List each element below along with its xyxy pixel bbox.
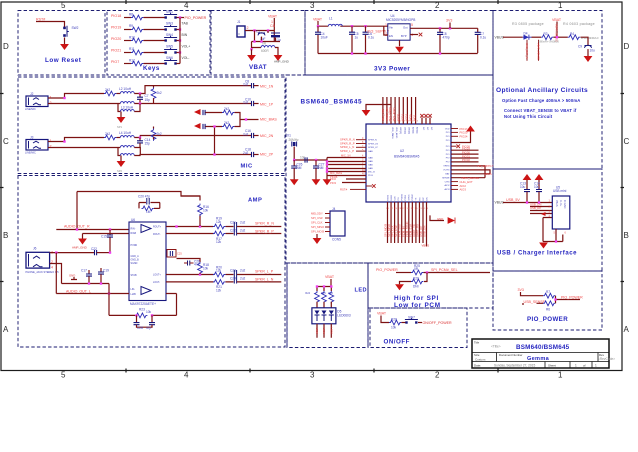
resistor R17 (151, 127, 162, 141)
inductor L1 (328, 17, 342, 27)
svg-text:MISO: MISO (391, 195, 393, 201)
junction (326, 160, 328, 172)
wire ground (543, 218, 563, 242)
crystal X1 (287, 134, 299, 147)
pin PIO20 (451, 131, 468, 135)
wire (134, 136, 251, 138)
junction (351, 52, 353, 54)
svg-text:PIO_POWER: PIO_POWER (561, 296, 583, 300)
power arrow (247, 55, 256, 61)
svg-text:PIO: PIO (446, 132, 450, 134)
svg-text:GND: GND (437, 217, 443, 221)
capacitor C15 (101, 230, 113, 253)
svg-text:SPI_MISO: SPI_MISO (311, 225, 325, 229)
wire (342, 179, 366, 183)
junction (63, 97, 65, 99)
wire (134, 86, 251, 94)
svg-text:B: B (624, 231, 629, 240)
wire (48, 147, 120, 149)
svg-text:Optional Ancillary Circuits: Optional Ancillary Circuits (496, 87, 588, 94)
wire (424, 273, 427, 282)
wire (76, 192, 78, 230)
no-connect (366, 184, 376, 188)
svg-text:10u: 10u (534, 185, 540, 189)
svg-text:VBAT: VBAT (325, 275, 335, 279)
svg-text:DNI: DNI (413, 285, 419, 289)
svg-text:AIO[1]: AIO[1] (416, 127, 419, 134)
svg-text:D: D (624, 42, 630, 51)
wire data rows (530, 207, 552, 218)
resistor R10 (129, 35, 143, 42)
junction (135, 314, 137, 316)
svg-text:VBAT: VBAT (268, 14, 278, 18)
svg-text:SPKR_L_P: SPKR_L_P (255, 270, 274, 274)
svg-text:3: 3 (310, 1, 315, 10)
resistor R19 (213, 217, 225, 229)
svg-text:MOSI: MOSI (387, 195, 389, 201)
junction (554, 298, 556, 300)
switch SW4 (164, 33, 177, 42)
svg-text:10u: 10u (590, 49, 596, 53)
wire (83, 234, 130, 239)
wire (451, 170, 490, 174)
wire (556, 296, 581, 304)
pin names top (391, 127, 432, 139)
wire (56, 293, 129, 295)
svg-text:LOUT+: LOUT+ (153, 274, 161, 277)
wire (318, 21, 388, 26)
power arrow (535, 174, 544, 190)
wire (50, 264, 62, 284)
node RST# (340, 187, 366, 191)
svg-text:High for SPI: High for SPI (394, 295, 439, 302)
svg-text:GAB: GAB (368, 160, 373, 163)
svg-text:VOL-: VOL- (182, 56, 190, 60)
svg-text:PCMO: PCMO (402, 194, 404, 201)
svg-text:C24: C24 (230, 277, 236, 281)
svg-text:LINE/MIC: LINE/MIC (25, 152, 36, 155)
svg-text:SW1: SW1 (166, 10, 173, 14)
svg-text:C21: C21 (230, 221, 236, 225)
svg-text:SPKR_R_N: SPKR_R_N (255, 222, 274, 226)
wire (235, 113, 241, 127)
svg-text:LIAB: LIAB (131, 293, 137, 296)
svg-text:LIN-: LIN- (131, 288, 136, 291)
wire PIO30 (451, 150, 479, 154)
junction (179, 39, 181, 41)
svg-text:Document Number: Document Number (499, 353, 523, 357)
svg-text:CS: CS (398, 197, 400, 201)
power arrow (290, 179, 299, 185)
junction (253, 40, 255, 42)
svg-text:VBUS: VBUS (495, 200, 505, 204)
capacitor C7 (475, 28, 487, 53)
junction (139, 92, 141, 94)
svg-text:<Title>: <Title> (491, 345, 501, 349)
node MIC labels (330, 154, 351, 179)
junction (151, 314, 153, 316)
junction (439, 27, 441, 29)
svg-text:RX: RX (419, 197, 421, 201)
node VBAT (325, 275, 335, 287)
svg-text:X1: X1 (287, 134, 291, 138)
svg-text:Connect VBAT_SENSE to VBAT if: Connect VBAT_SENSE to VBAT if (504, 108, 577, 113)
svg-text:MIC5205YM5/NOPB: MIC5205YM5/NOPB (386, 18, 415, 22)
svg-text:PIO_POWER: PIO_POWER (185, 16, 207, 20)
no-connect pins (420, 114, 432, 124)
svg-text:NC: NC (426, 127, 428, 131)
wire (177, 17, 185, 19)
svg-text:2k2: 2k2 (157, 132, 162, 136)
svg-text:DN: DN (426, 197, 428, 201)
resistor R28 (389, 317, 401, 329)
svg-text:LED[0]: LED[0] (399, 127, 401, 134)
svg-text:MIC_B: MIC_B (368, 171, 375, 173)
power arrow (117, 156, 126, 174)
ground arrow (194, 123, 201, 129)
resistor R3 (539, 32, 560, 44)
wire (64, 38, 66, 45)
svg-text:AMP_GND: AMP_GND (274, 60, 290, 64)
power arrow (395, 284, 404, 290)
svg-text:10k: 10k (146, 310, 152, 314)
svg-text:Sunday, September 27, 2015: Sunday, September 27, 2015 (494, 364, 535, 368)
block outline PIO_POWER (493, 271, 602, 330)
wire out rows (166, 227, 214, 282)
svg-text:J4: J4 (332, 207, 336, 211)
resistor R14 (151, 86, 162, 104)
svg-text:4: 4 (184, 371, 189, 380)
junction (267, 29, 269, 31)
svg-text:AIO3: AIO3 (460, 188, 467, 192)
junction (199, 225, 201, 227)
svg-text:R23: R23 (139, 307, 145, 311)
wire (144, 40, 165, 42)
junction (139, 102, 141, 104)
svg-text:PIO20: PIO20 (111, 37, 121, 41)
ground arrow small (541, 212, 546, 216)
svg-text:VBAT: VBAT (313, 17, 323, 21)
wire VBUS (451, 172, 492, 176)
resistor R7 (543, 290, 555, 298)
svg-text:PIO: PIO (446, 140, 450, 142)
svg-text:USB mini: USB mini (553, 189, 567, 193)
wire (214, 127, 216, 155)
wire (134, 103, 251, 105)
svg-text:PIO: PIO (446, 150, 450, 152)
svg-text:C19: C19 (103, 269, 109, 273)
svg-text:PVDD: PVDD (131, 244, 138, 247)
svg-text:PIO18: PIO18 (111, 14, 121, 18)
title block (472, 339, 615, 368)
svg-text:10u: 10u (520, 185, 526, 189)
svg-text:2: 2 (435, 1, 440, 10)
block outline MIC (18, 77, 285, 174)
svg-text:680mR+-5%0805: 680mR+-5%0805 (539, 39, 560, 43)
svg-text:2u2: 2u2 (240, 269, 246, 273)
wire (50, 252, 94, 254)
svg-text:3V3 Power: 3V3 Power (374, 65, 410, 72)
svg-text:BSM640/BSM645: BSM640/BSM645 (516, 344, 570, 351)
svg-text:AIO3: AIO3 (445, 188, 451, 191)
capacitor C6 (363, 26, 375, 53)
svg-text:SGND: SGND (131, 262, 138, 265)
svg-text:R9: R9 (129, 24, 133, 28)
svg-text:TAB: TAB (182, 22, 189, 26)
svg-text:VDD_ADIO: VDD_ADIO (395, 127, 398, 138)
ground arrow (194, 109, 201, 115)
svg-text:SPKR_N: SPKR_N (368, 140, 377, 142)
junction (317, 25, 319, 27)
pin AIO3 (451, 188, 466, 192)
svg-text:C20 47p: C20 47p (138, 195, 150, 199)
connector J1 (237, 20, 245, 37)
wire (402, 322, 407, 324)
svg-text:LED0603: LED0603 (337, 313, 351, 317)
svg-text:PCMI: PCMI (405, 195, 407, 201)
svg-text:R6: R6 (546, 307, 550, 311)
svg-text:NM: NM (319, 166, 324, 170)
svg-text:Title: Title (474, 341, 480, 345)
junction (556, 36, 558, 38)
svg-text:Low Reset: Low Reset (45, 57, 82, 64)
svg-text:C8: C8 (270, 24, 275, 28)
resistor R21 (213, 280, 225, 293)
svg-text:VBAT: VBAT (377, 312, 387, 316)
svg-text:C23: C23 (230, 269, 236, 273)
svg-text:LED[2]: LED[2] (407, 127, 409, 134)
svg-text:MAX97220AETE+: MAX97220AETE+ (130, 302, 156, 306)
wire feedback top (77, 192, 200, 197)
svg-text:R26: R26 (328, 292, 333, 295)
svg-text:AUDIO_OUT_R: AUDIO_OUT_R (64, 225, 90, 229)
svg-text:BAT: BAT (445, 173, 450, 176)
resistor R11 (129, 47, 143, 55)
switch SW2 (63, 26, 78, 37)
wire PIO31 (451, 154, 479, 158)
svg-text:2u2: 2u2 (243, 101, 249, 105)
connector J3 (25, 136, 52, 155)
svg-text:2k2: 2k2 (157, 91, 162, 95)
svg-text:MIC_1N: MIC_1N (260, 84, 274, 88)
resistor R18b (198, 262, 209, 274)
wire (177, 29, 181, 31)
pin names bottom (387, 194, 428, 201)
svg-text:SW2: SW2 (72, 26, 79, 30)
svg-text:VBAT_SENSE: VBAT_SENSE (536, 43, 540, 60)
capacitor C7 (137, 94, 150, 104)
svg-text:LED[1]: LED[1] (403, 127, 405, 134)
wire (177, 52, 181, 54)
svg-text:AIO2: AIO2 (445, 184, 451, 187)
svg-text:MIC_1N: MIC_1N (341, 154, 351, 158)
wire (554, 36, 568, 38)
resistor R6 (543, 301, 555, 311)
svg-text:PIO: PIO (446, 154, 450, 156)
node SPKR_R_P (340, 141, 366, 145)
ground marker (69, 273, 77, 279)
node VBAT (377, 312, 389, 323)
junction (55, 251, 57, 253)
power arrow (312, 179, 321, 185)
svg-text:Sheet: Sheet (548, 364, 556, 368)
svg-text:CHG_EXT_A: CHG_EXT_A (525, 43, 529, 59)
block outline Optional Ancillary Circuits (493, 11, 602, 170)
svg-text:BYP: BYP (401, 34, 407, 38)
svg-text:SW4: SW4 (166, 33, 173, 37)
capacitor C19 (98, 268, 109, 284)
junction (449, 27, 451, 29)
capacitor C25 network (167, 250, 182, 258)
svg-text:PIO7: PIO7 (111, 60, 119, 64)
svg-text:4: 4 (51, 266, 53, 270)
block outline BSM640_BSM645 (286, 75, 493, 263)
svg-text:29 27 25 23 21 19 17 15 13 11: 29 27 25 23 21 19 17 15 13 11 9 (386, 208, 429, 210)
wire PIO29 (451, 147, 479, 151)
wire (134, 104, 140, 112)
junction (293, 159, 295, 161)
block outline USB Charger (493, 169, 602, 271)
capacitor C13 (520, 182, 530, 203)
svg-text:J3: J3 (30, 136, 34, 140)
svg-text:VREG: VREG (443, 166, 449, 168)
power arrow (117, 112, 126, 130)
junction (253, 29, 255, 31)
svg-text:15p: 15p (145, 98, 151, 102)
junction (88, 282, 90, 284)
capacitor C16 (243, 129, 259, 138)
resistor R16 (222, 107, 234, 115)
svg-text:PIO_POWER: PIO_POWER (527, 316, 568, 323)
svg-text:PIO: PIO (446, 136, 450, 138)
junction (100, 282, 102, 284)
wire bottom loop (109, 294, 177, 316)
wire (55, 253, 57, 294)
svg-text:D: D (3, 42, 9, 51)
block outline VBAT (211, 11, 305, 76)
svg-text:0R: 0R (414, 267, 419, 271)
wire (108, 284, 110, 316)
wire H5_SUPPLY (451, 164, 494, 178)
wire (503, 36, 523, 38)
svg-text:3V3: 3V3 (446, 19, 452, 23)
svg-text:MIC_BIAS: MIC_BIAS (260, 118, 277, 122)
svg-text:R26: R26 (413, 277, 419, 281)
junction (364, 52, 366, 54)
svg-text:VDD_PADS: VDD_PADS (391, 127, 394, 139)
wire (134, 154, 140, 156)
svg-text:<RevCode>: <RevCode> (598, 357, 615, 361)
pin PIO21 (451, 135, 468, 139)
IC bottom pins (384, 194, 456, 248)
svg-text:SP1: SP1 (117, 125, 122, 129)
wire (400, 282, 412, 285)
svg-text:Vin: Vin (389, 26, 393, 30)
capacitor C20 (138, 195, 160, 205)
svg-text:LED1: LED1 (322, 328, 326, 335)
pin names right (442, 128, 450, 191)
node SPKR_R_N (340, 138, 366, 142)
block outline 3V3 Power (305, 11, 493, 76)
wire (273, 18, 275, 42)
wire (117, 93, 121, 95)
wire (144, 63, 165, 65)
junction (179, 28, 181, 30)
svg-text:SW6: SW6 (166, 56, 173, 60)
svg-text:31 33 35 37 39 41 43: 31 33 35 37 39 41 43 (389, 121, 419, 123)
junction (175, 225, 177, 227)
node SPKR_L_P (340, 149, 366, 153)
svg-text:VBUS: VBUS (555, 200, 558, 207)
junction (108, 292, 110, 294)
svg-text:C22: C22 (230, 229, 236, 233)
svg-text:SPKR_L_P: SPKR_L_P (340, 149, 354, 153)
svg-text:R24: R24 (305, 292, 310, 295)
switch SW5 (164, 44, 177, 53)
capacitor C22 (91, 247, 110, 255)
svg-text:VBUS: VBUS (484, 172, 492, 176)
svg-text:R8: R8 (129, 12, 133, 16)
LED array D5 (312, 308, 351, 324)
svg-text:MIC: MIC (241, 164, 253, 170)
wire (275, 48, 278, 56)
resistor R18 (222, 121, 234, 129)
svg-text:Custom: Custom (475, 358, 486, 362)
switch SW6 (164, 56, 177, 65)
svg-text:SPI_CLK: SPI_CLK (311, 221, 323, 225)
svg-text:C: C (624, 137, 630, 146)
svg-text:1: 1 (558, 1, 563, 10)
wire GND (430, 215, 455, 223)
junction (199, 273, 201, 275)
block outline Low Reset (18, 11, 105, 76)
resistor R17b (213, 231, 225, 244)
svg-text:BIN: BIN (182, 33, 188, 37)
junction (526, 201, 540, 203)
capacitor C26 (184, 260, 200, 267)
svg-text:Option Fast Charge 400mA > 500: Option Fast Charge 400mA > 500mA (502, 98, 581, 103)
svg-text:Date:: Date: (474, 364, 481, 368)
wire (317, 324, 331, 338)
wire (252, 42, 281, 50)
svg-text:L2 10uH: L2 10uH (119, 87, 132, 91)
no-connect PIO26 (451, 144, 470, 148)
capacitor C17 (81, 269, 92, 284)
svg-text:1M: 1M (146, 210, 151, 214)
junction (316, 285, 333, 287)
resistor R16b (198, 204, 209, 216)
node SPKR_L_N (340, 145, 366, 149)
svg-text:PIO24: PIO24 (460, 135, 468, 139)
junction (426, 271, 428, 273)
svg-text:H5_SUPPLY: H5_SUPPLY (478, 164, 494, 168)
capacitor C2 (271, 33, 281, 42)
svg-text:USB / Charger Interface: USB / Charger Interface (497, 250, 577, 256)
power arrow (523, 174, 532, 190)
svg-text:GAB: GAB (368, 163, 373, 166)
svg-text:ROUT-: ROUT- (153, 233, 161, 236)
capacitor C5 (349, 26, 359, 53)
svg-text:RST#: RST# (340, 187, 348, 191)
svg-text:2: 2 (247, 26, 249, 30)
svg-text:VBUS: VBUS (495, 35, 505, 39)
junction (260, 40, 262, 42)
junction (555, 240, 557, 242)
resistor R22 (139, 203, 160, 214)
svg-text:L3 10uH: L3 10uH (121, 106, 134, 110)
resistor R25b (411, 264, 423, 275)
block outline Keys (107, 11, 210, 76)
